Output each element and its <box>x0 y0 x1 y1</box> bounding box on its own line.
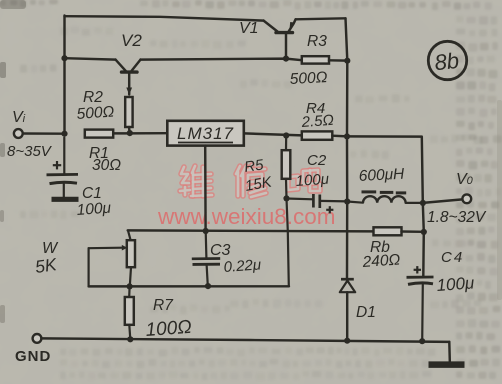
svg-text:C2: C2 <box>307 152 327 169</box>
node R4 right junction <box>344 133 350 139</box>
wire ground rail <box>41 338 449 342</box>
resistor R3 <box>302 56 329 63</box>
svg-text:500Ω: 500Ω <box>289 69 328 88</box>
diode D1 <box>340 279 355 340</box>
label R4 <box>306 100 325 117</box>
label D1 <box>356 304 376 321</box>
svg-text:V1: V1 <box>239 20 259 37</box>
wire output node down to C4 <box>423 203 424 277</box>
svg-text:2.5Ω: 2.5Ω <box>300 112 334 131</box>
terminal Vi <box>14 129 23 138</box>
capacitor C2 <box>287 194 348 213</box>
label C4 value 100u <box>436 273 476 295</box>
svg-text:100Ω: 100Ω <box>145 317 193 341</box>
svg-text:V2: V2 <box>121 31 142 50</box>
label GND <box>15 348 51 365</box>
label R2 <box>83 89 103 106</box>
node V1 base junction <box>283 56 289 62</box>
svg-text:GND: GND <box>15 348 51 365</box>
label C1 <box>82 185 102 202</box>
node R2 input junction <box>127 130 133 136</box>
capacitor C1 <box>47 138 79 200</box>
node ADJ junction <box>203 228 209 234</box>
svg-text:R3: R3 <box>307 33 327 50</box>
node R5 bottom junction <box>283 195 289 201</box>
watermark characters weixiuba <box>180 165 320 197</box>
label Vi voltage 8-35V <box>7 143 53 160</box>
capacitor C3 <box>192 231 220 286</box>
node left rail base junction <box>61 55 67 61</box>
svg-text:C1: C1 <box>82 185 102 202</box>
wire Rb to output node <box>402 230 424 233</box>
wire output top to inductor right <box>347 136 423 203</box>
label output voltage 1.8-32V <box>427 209 487 226</box>
wire ADJ pin down <box>204 146 207 231</box>
resistor R5 <box>282 136 291 199</box>
terminal V0 <box>462 194 471 203</box>
label Rb value 240 <box>361 251 401 271</box>
resistor R7 <box>125 286 134 339</box>
wire V1 emitter to top right corner <box>296 18 346 19</box>
label W value 5K <box>34 254 59 277</box>
node input junction <box>61 131 67 137</box>
label V2 <box>121 31 142 50</box>
svg-text:LM317: LM317 <box>177 124 234 143</box>
wire left input rail <box>63 16 65 134</box>
svg-text:www.weixiu8.com: www.weixiu8.com <box>157 204 336 229</box>
label C2 value 100u <box>295 171 329 190</box>
potentiometer W <box>89 231 135 287</box>
svg-text:R7: R7 <box>153 297 174 314</box>
wire R3 to right rail <box>329 59 347 62</box>
svg-text:8~35V: 8~35V <box>7 143 53 160</box>
label V1 <box>239 20 259 37</box>
label R3 value 500 <box>289 69 328 88</box>
resistor R6 Rb <box>374 227 402 235</box>
node C4 ground junction <box>419 338 425 344</box>
label R1 value 30 <box>92 157 121 174</box>
label R2 value 500 <box>76 103 115 123</box>
svg-text:8b: 8b <box>433 48 460 75</box>
label C4 <box>441 249 464 266</box>
resistor R1 <box>85 130 113 138</box>
wire LM317 output <box>244 133 302 135</box>
wire to V0 terminal <box>423 199 462 203</box>
resistor R2 <box>125 97 132 127</box>
label R1 <box>89 145 109 162</box>
node D1 ground junction <box>344 338 350 344</box>
svg-text:100μ: 100μ <box>295 171 329 190</box>
wire right rail mid <box>346 136 349 201</box>
wire right rail upper <box>346 61 349 137</box>
wire R5 down to divider <box>287 198 289 286</box>
wire right rail lower <box>346 202 349 279</box>
node inductor right junction <box>420 200 426 206</box>
op-amp U1 LM317 regulator box <box>167 121 244 146</box>
transistor V1 <box>264 19 296 58</box>
wire R1 to LM317 <box>113 132 167 135</box>
svg-text:240Ω: 240Ω <box>361 251 401 271</box>
label C3 <box>210 242 231 259</box>
inductor core dashed line <box>362 192 407 193</box>
node C2 right junction <box>344 198 350 204</box>
svg-text:100μ: 100μ <box>436 273 476 295</box>
svg-text:D1: D1 <box>356 304 376 321</box>
label LM317 <box>177 124 234 143</box>
label R5 <box>243 156 265 176</box>
svg-text:R5: R5 <box>243 156 265 176</box>
svg-text:0.22μ: 0.22μ <box>223 256 262 276</box>
wire top right corner down <box>346 18 348 60</box>
transistor V2 <box>116 60 141 95</box>
label R7 value 100 <box>145 317 193 341</box>
node R5 top junction <box>283 132 289 138</box>
label R4 value 2.5 <box>300 112 334 131</box>
resistor R4 <box>302 131 333 139</box>
wire top Vin rail <box>65 16 264 20</box>
node C3 bottom junction <box>205 283 211 289</box>
label C2 <box>307 152 327 169</box>
wire R2 to input line <box>128 127 131 133</box>
wire ADJ rail <box>128 230 374 231</box>
svg-text:C4: C4 <box>441 249 464 266</box>
label C1 value 100u <box>76 200 112 219</box>
label V0 <box>456 171 474 188</box>
wire R4 to right rail <box>332 134 347 137</box>
capacitor C4 <box>407 266 434 341</box>
node R7 ground junction <box>127 336 133 342</box>
label W <box>42 240 59 257</box>
wire divider bottom rail <box>89 285 289 288</box>
label R3 <box>307 33 327 50</box>
svg-text:500Ω: 500Ω <box>76 103 115 123</box>
wire Vi to left rail <box>23 132 65 135</box>
svg-text:600μH: 600μH <box>358 166 405 185</box>
node W bottom junction <box>127 283 133 289</box>
label R5 value 15K <box>244 173 274 195</box>
wire base rail from left rail to V2 <box>65 58 116 59</box>
inductor L1 600uH <box>347 196 423 203</box>
node R3 right junction <box>344 58 350 64</box>
figure label 8b circle <box>428 41 466 79</box>
terminal GND <box>33 334 42 343</box>
svg-text:5K: 5K <box>34 254 59 277</box>
svg-text:1.8~32V: 1.8~32V <box>427 209 487 226</box>
wire V2 to R3 <box>141 59 302 61</box>
svg-text:30Ω: 30Ω <box>92 157 121 174</box>
label C3 value 0.22u <box>223 256 262 276</box>
label Rb <box>370 239 390 256</box>
svg-text:C3: C3 <box>210 242 231 259</box>
label Vi <box>12 109 26 126</box>
node Rb right junction <box>421 229 427 235</box>
svg-text:100μ: 100μ <box>76 200 112 219</box>
label R7 <box>153 297 174 314</box>
ground symbol <box>429 342 465 365</box>
label L1 value 600uH <box>358 166 405 185</box>
